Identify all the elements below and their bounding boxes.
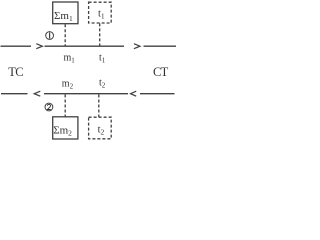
wire top middle segment <box>45 45 125 47</box>
svg-text:m2: m2 <box>62 78 74 90</box>
wire bottom middle segment <box>44 93 128 95</box>
svg-text:t2: t2 <box>99 78 106 90</box>
svg-text:t2: t2 <box>98 125 105 137</box>
svg-text:TC: TC <box>8 65 23 79</box>
pin digit 2 <box>47 104 50 109</box>
box Sigma-m1 <box>53 2 78 24</box>
wire bottom right segment <box>140 93 175 95</box>
box Sigma-m2 <box>53 117 78 139</box>
svg-text:m1: m1 <box>64 53 76 65</box>
svg-text:t1: t1 <box>98 9 105 21</box>
arrowhead right, top wire left <box>36 44 42 49</box>
dashed box t1 <box>89 2 112 23</box>
dashed drop from bottom wire to Sigma-m2 <box>64 95 66 117</box>
wire top left segment <box>1 45 32 47</box>
wire bottom left segment <box>1 93 28 95</box>
svg-text:t1: t1 <box>99 53 106 65</box>
svg-text:Σm1: Σm1 <box>54 10 73 23</box>
dashed drop from t1 to top wire <box>99 23 101 45</box>
wire top right segment <box>144 45 177 47</box>
arrowhead left, bottom wire right <box>131 91 137 96</box>
arrowhead left, bottom wire left <box>34 91 40 96</box>
node circled 2 <box>45 103 53 111</box>
svg-text:CT: CT <box>153 65 169 79</box>
svg-text:Σm2: Σm2 <box>53 125 72 138</box>
dashed drop from bottom wire to t2 <box>98 95 100 118</box>
dashed box t2 <box>89 117 112 139</box>
arrowhead right, top wire right <box>134 44 140 49</box>
dashed drop from Sigma-m1 to top wire <box>64 24 66 45</box>
node circled 1 <box>46 32 54 40</box>
